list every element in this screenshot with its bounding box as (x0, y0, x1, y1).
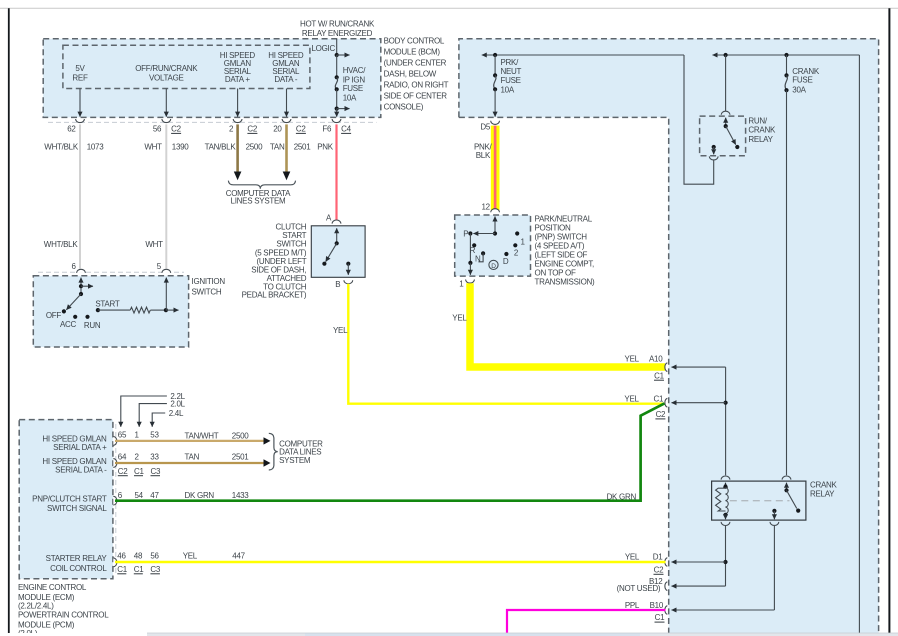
wire GMLAN- internal (286, 89, 288, 117)
svg-text:PNP/CLUTCH START: PNP/CLUTCH START (32, 494, 107, 503)
svg-text:LOGIC: LOGIC (312, 44, 336, 53)
wire clutch output down (347, 264, 349, 275)
svg-text:46: 46 (117, 552, 126, 561)
connector arc A10 (665, 363, 667, 372)
svg-text:DATA -: DATA - (274, 75, 298, 84)
svg-text:POSITION: POSITION (535, 223, 571, 232)
node clutch common (335, 241, 339, 245)
left page border (8, 8, 10, 633)
node run/crank common (724, 124, 728, 128)
svg-text:D5: D5 (480, 122, 490, 131)
svg-text:C1: C1 (117, 565, 127, 574)
wire branch2 down arrow (336, 109, 338, 117)
wire bus1 corner down to run/crank relay (684, 55, 714, 184)
svg-text:D: D (503, 257, 509, 266)
connector arch crank relay coil top (721, 476, 730, 480)
connector arc C1 (665, 398, 667, 407)
node OFF contact (62, 309, 66, 313)
node ignition rotor dot (79, 292, 83, 296)
node 1 contact (515, 231, 519, 235)
actuator dashed line (730, 500, 790, 502)
label HVAC/ IP IGN FUSE 10A (343, 66, 367, 102)
top right fuse block dashed border (459, 39, 879, 633)
fuse PRK/NEUT 10A (493, 73, 497, 91)
connector cup pin 62 (76, 119, 85, 123)
svg-text:TAN: TAN (270, 142, 285, 151)
wire bus2 right corner down (858, 55, 860, 633)
wire run/crank relay feed (725, 55, 727, 111)
node clutch output contact (346, 262, 350, 266)
pin labels 6 54 47 (118, 491, 160, 500)
svg-text:1390: 1390 (172, 142, 190, 151)
node logic branch dot (335, 53, 339, 57)
svg-text:C2: C2 (247, 125, 257, 134)
wire PNK (335, 124, 337, 220)
label PNK/ BLK (474, 142, 493, 160)
svg-text:20: 20 (273, 125, 282, 134)
svg-text:1433: 1433 (232, 491, 250, 500)
svg-text:C3: C3 (151, 467, 161, 476)
svg-text:RADIO, ON RIGHT: RADIO, ON RIGHT (384, 80, 449, 89)
connector cup clutch B (344, 280, 353, 284)
clutch switch arm (326, 243, 337, 261)
node clutch arm end (322, 262, 326, 266)
svg-text:(UNDER CENTER: (UNDER CENTER (384, 58, 447, 67)
wire resistor to node (150, 309, 166, 311)
stub 2.4L (152, 409, 184, 427)
BCM box fill (43, 39, 381, 118)
svg-text:2501: 2501 (232, 453, 250, 462)
svg-text:PRK/: PRK/ (501, 58, 520, 67)
node coil top (723, 485, 727, 489)
label C1 under A10 (654, 371, 665, 380)
label HI SPEED GMLAN SERIAL DATA + (220, 51, 256, 84)
svg-text:VOLTAGE: VOLTAGE (149, 73, 184, 82)
svg-text:HI SPEED GMLAN: HI SPEED GMLAN (42, 457, 107, 466)
connector arc B12 (665, 582, 667, 591)
crank relay switch entry arrow (786, 483, 788, 491)
label HI SPEED GMLAN SERIAL DATA - (268, 51, 304, 84)
connector arch PNP 12 (491, 209, 500, 213)
wire P down (469, 234, 471, 263)
svg-text:(4 SPEED A/T): (4 SPEED A/T) (535, 241, 585, 250)
svg-text:2501: 2501 (294, 142, 312, 151)
crank relay box (712, 481, 806, 520)
wire A10 to crank relay (672, 367, 726, 475)
node bus2 crank fuse tap (784, 53, 788, 57)
fuse HVAC/IP IGN 10A (335, 75, 339, 91)
label 5V REF (72, 64, 88, 82)
svg-text:PNK/: PNK/ (474, 142, 493, 151)
run/crank switch arm (726, 126, 736, 145)
label CRANK FUSE 30A (792, 67, 820, 95)
svg-text:D1: D1 (653, 552, 663, 561)
wire DK GRN 1433 (115, 403, 664, 500)
label PNP/CLUTCH START SWITCH SIGNAL (32, 494, 107, 512)
wire fuse to D5 arrow (494, 89, 496, 116)
pin labels 46 48 56 (117, 552, 159, 561)
svg-text:SIDE OF CENTER: SIDE OF CENTER (384, 91, 448, 100)
run/crank relay input arrow (725, 118, 727, 126)
wire START to resistor (98, 309, 130, 311)
svg-text:65: 65 (118, 431, 127, 440)
label BODY CONTROL MODULE (BCM) (384, 36, 449, 111)
svg-text:C2: C2 (296, 125, 306, 134)
connector arc D1 (665, 558, 667, 567)
svg-text:SWITCH: SWITCH (192, 288, 222, 297)
wire ignition pin6 entry (80, 278, 82, 294)
svg-text:(2.2L/2.4L): (2.2L/2.4L) (18, 602, 54, 611)
svg-text:IP IGN: IP IGN (343, 75, 366, 84)
svg-text:CONSOLE): CONSOLE) (384, 102, 424, 111)
svg-text:SERIAL DATA -: SERIAL DATA - (55, 466, 107, 475)
svg-text:30A: 30A (792, 86, 806, 95)
svg-text:FUSE: FUSE (501, 76, 521, 85)
svg-text:SYSTEM: SYSTEM (279, 456, 311, 465)
clutch switch common arrow up (336, 228, 338, 243)
svg-text:47: 47 (150, 491, 159, 500)
wire to PRK/NEUT fuse (494, 55, 496, 75)
svg-text:C2: C2 (656, 410, 666, 419)
wire YEL thick highlighted PNP to A10 (470, 283, 665, 367)
pin labels row (67, 125, 351, 134)
wire YEL clutch B to C1 (348, 284, 664, 404)
node ACC contact (73, 315, 77, 319)
svg-text:PARK/NEUTRAL: PARK/NEUTRAL (535, 214, 593, 223)
svg-text:CRANK: CRANK (748, 126, 776, 135)
wire color labels row (44, 142, 333, 151)
wire to fuse top (336, 55, 338, 77)
pin labels C1 C1 C3 (bottom) (117, 565, 161, 574)
wire WHT/BLK 1073 (79, 124, 81, 268)
wire branch2 arrow (337, 108, 350, 110)
wire switch output to B10 (773, 526, 775, 610)
svg-text:TAN/BLK: TAN/BLK (205, 142, 237, 151)
svg-text:(LEFT SIDE OF: (LEFT SIDE OF (535, 250, 588, 259)
svg-text:YEL: YEL (625, 552, 640, 561)
label B12 (NOT USED) (617, 577, 664, 593)
ignition switch box (33, 276, 188, 347)
label TAN 2501 (185, 453, 250, 462)
bottom scrollbar bar (0, 633, 898, 636)
svg-text:NEUT: NEUT (501, 67, 522, 76)
svg-text:ENGINE CONTROL: ENGINE CONTROL (18, 583, 87, 592)
fuse CRANK 30A (784, 73, 788, 92)
label PPL B10 (625, 601, 664, 610)
wire PNP out down arrow (469, 263, 471, 275)
svg-text:WHT: WHT (144, 142, 162, 151)
label PRK/ NEUT FUSE 10A (501, 58, 522, 94)
node branch2 dot (335, 107, 339, 111)
crank relay switch arm (787, 490, 797, 508)
svg-text:C1: C1 (654, 371, 664, 380)
wire TAN 2501 (115, 459, 271, 466)
label TAN/WHT 2500 (185, 431, 250, 440)
svg-text:C2: C2 (171, 125, 181, 134)
svg-text:DASH, BELOW: DASH, BELOW (384, 69, 437, 78)
svg-text:DATA +: DATA + (225, 75, 251, 84)
wire PNK/BLK highlighted (491, 126, 500, 211)
resistor ignition (130, 307, 150, 313)
svg-text:C1: C1 (655, 613, 665, 622)
svg-text:HI SPEED GMLAN: HI SPEED GMLAN (42, 435, 107, 444)
connector cup pin 20 (282, 119, 291, 123)
svg-text:C2: C2 (118, 467, 128, 476)
node bus1 fuse tap (493, 53, 497, 57)
label STARTER RELAY COIL CONTROL (46, 554, 108, 573)
svg-text:10A: 10A (501, 85, 515, 94)
label OFF/RUN/CRANK VOLTAGE (135, 64, 198, 82)
svg-text:CRANK: CRANK (810, 481, 838, 490)
svg-text:D: D (491, 263, 496, 270)
svg-text:2500: 2500 (232, 431, 250, 440)
svg-text:33: 33 (150, 453, 159, 462)
label CLUTCH START SWITCH block (242, 223, 307, 300)
svg-text:(PNP) SWITCH: (PNP) SWITCH (535, 232, 588, 241)
brace computer data lines (ECM) (269, 433, 278, 470)
wire node arrow right (166, 309, 179, 311)
label IGNITION SWITCH (192, 277, 226, 297)
wire ignition pin5 entry (165, 278, 167, 311)
svg-text:2.0L: 2.0L (170, 400, 185, 409)
svg-text:OFF/RUN/CRANK: OFF/RUN/CRANK (135, 64, 198, 73)
svg-text:A10: A10 (649, 354, 663, 363)
svg-text:C1: C1 (654, 394, 664, 403)
wire 5V REF internal (79, 89, 81, 117)
label HI SPEED GMLAN SERIAL DATA - (ECM) (42, 457, 107, 475)
underlines C1 C1 C3 (117, 573, 160, 575)
resistor crank relay (716, 488, 726, 511)
svg-text:48: 48 (134, 552, 143, 561)
svg-text:PNK: PNK (317, 142, 334, 151)
wire PNP pin12 entry (494, 217, 496, 234)
ECM/PCM box (19, 420, 113, 579)
node D1 junction (723, 560, 727, 564)
stub 2.0L (139, 400, 185, 427)
svg-text:IGNITION: IGNITION (192, 277, 226, 286)
svg-text:B10: B10 (650, 601, 664, 610)
node RUN contact (85, 315, 89, 319)
svg-text:C3: C3 (150, 565, 160, 574)
wire run/crank output down (713, 147, 715, 154)
node 2 contact (513, 243, 517, 247)
svg-text:HVAC/: HVAC/ (343, 66, 367, 75)
connector cup pin 56 (162, 119, 171, 123)
wire GMLAN+ internal (237, 89, 239, 117)
svg-text:SWITCH SIGNAL: SWITCH SIGNAL (47, 504, 107, 513)
svg-text:LINES SYSTEM: LINES SYSTEM (231, 197, 286, 206)
svg-text:C4: C4 (341, 125, 351, 134)
svg-text:RUN: RUN (84, 321, 101, 330)
wire YEL 447 (115, 561, 666, 563)
wire PNP to P arrow (473, 233, 495, 235)
svg-text:OFF: OFF (46, 311, 62, 320)
node D contact (504, 252, 508, 256)
BCM inner box (63, 45, 310, 88)
svg-text:B: B (335, 280, 340, 289)
brace computer data lines (228, 181, 295, 189)
wire TAN/BLK 2500 (234, 124, 242, 180)
pin labels C2 C1 C3 (118, 467, 161, 476)
wire fuse to branch2 (336, 89, 338, 108)
svg-text:TAN/WHT: TAN/WHT (185, 431, 219, 440)
label COMPUTER DATA LINES SYSTEM (ECM) (279, 440, 323, 466)
wire D1 arrow (672, 561, 726, 563)
svg-text:WHT/BLK: WHT/BLK (44, 142, 79, 151)
svg-text:12: 12 (481, 203, 490, 212)
svg-text:447: 447 (232, 552, 245, 561)
label YEL C1 (624, 394, 664, 403)
svg-text:56: 56 (153, 125, 162, 134)
svg-text:COIL CONTROL: COIL CONTROL (50, 564, 107, 573)
svg-text:MODULE (BCM): MODULE (BCM) (384, 47, 441, 56)
top right fuse block region fill (459, 39, 879, 633)
label CRANK RELAY (810, 481, 838, 499)
label C1 under B10 (655, 613, 666, 622)
connector cup D5 (491, 121, 500, 125)
top hairline (0, 7, 898, 9)
clutch start switch box (311, 226, 365, 277)
wire B10 arrow (672, 609, 775, 611)
svg-text:C1: C1 (134, 467, 144, 476)
svg-text:MODULE (ECM): MODULE (ECM) (18, 593, 75, 602)
connector arch run/crank relay top (721, 111, 730, 115)
wire PPL B10 (507, 610, 666, 633)
svg-text:DK GRN: DK GRN (607, 492, 637, 501)
node PNP out (468, 261, 472, 265)
node ignition pin5 junction (164, 308, 168, 312)
wire coil bottom arrow (725, 515, 727, 519)
label C2 under D1 (654, 565, 665, 574)
N contact elbow (478, 253, 483, 261)
node R contact (472, 243, 476, 247)
connector cup run/crank bottom (709, 156, 718, 160)
label COMPUTER DATA LINES SYSTEM (top) (226, 189, 291, 206)
svg-text:P: P (463, 230, 468, 239)
ignition rotor arm to OFF (66, 294, 81, 310)
svg-text:REF: REF (72, 73, 88, 82)
label HOT W/ RUN/CRANK RELAY ENERGIZED (300, 20, 375, 39)
svg-text:PEDAL BRACKET): PEDAL BRACKET) (242, 291, 307, 300)
svg-text:F6: F6 (322, 125, 332, 134)
connector arch pin 5 (162, 269, 171, 273)
wire coil bottom to D1 and B12 (725, 526, 727, 586)
connector arch pin 6 (77, 269, 86, 273)
wire bus1 arrow left (482, 54, 684, 56)
right page border (888, 8, 890, 633)
svg-text:YEL: YEL (333, 326, 348, 335)
svg-text:RELAY ENERGIZED: RELAY ENERGIZED (302, 29, 373, 38)
node P contact (468, 231, 472, 235)
label YEL 447 (183, 552, 246, 561)
connector cup PNP 1 (466, 280, 475, 284)
svg-text:STARTER RELAY: STARTER RELAY (46, 554, 108, 563)
label ENGINE CONTROL MODULE block (18, 583, 109, 636)
svg-text:53: 53 (150, 431, 159, 440)
svg-text:PPL: PPL (625, 601, 640, 610)
wire C1 arrow (672, 402, 726, 404)
node ignition branch dot (79, 284, 83, 288)
wire crank fuse down to relay (786, 90, 788, 475)
svg-text:ENGINE COMPT,: ENGINE COMPT, (535, 259, 595, 268)
node PNP center (493, 231, 497, 235)
svg-text:62: 62 (67, 125, 76, 134)
connector arc B10 (665, 606, 667, 615)
pin labels 65 1 53 (118, 431, 160, 440)
svg-text:10A: 10A (343, 93, 357, 102)
svg-text:1073: 1073 (87, 142, 105, 151)
label YEL A10 (625, 354, 664, 363)
wire switch output down (773, 511, 775, 519)
node switch top (784, 488, 788, 492)
svg-text:BODY CONTROL: BODY CONTROL (384, 36, 445, 45)
connector cup pin 2 (233, 119, 242, 123)
node switch arm end (796, 509, 800, 513)
svg-text:RELAY: RELAY (810, 490, 835, 499)
wire WHT 1390 (165, 124, 167, 268)
svg-text:POWERTRAIN CONTROL: POWERTRAIN CONTROL (18, 611, 109, 620)
wire crank fuse feed (786, 55, 788, 75)
run/crank relay box (700, 116, 746, 156)
svg-text:YEL: YEL (625, 354, 640, 363)
svg-text:RELAY: RELAY (748, 135, 773, 144)
connector arch clutch A (332, 220, 341, 224)
label PARK/NEUTRAL POSITION (PNP) SWITCH block (535, 214, 596, 286)
ECM connector face dashed (115, 424, 117, 575)
svg-text:WHT/BLK: WHT/BLK (44, 240, 79, 249)
svg-text:DK GRN: DK GRN (185, 491, 215, 500)
svg-text:2500: 2500 (246, 142, 264, 151)
svg-text:64: 64 (118, 453, 127, 462)
node START contact (96, 308, 100, 312)
connector cup pin F6 (332, 119, 341, 123)
svg-text:START: START (95, 300, 119, 309)
wire B12 arrow (672, 585, 726, 587)
svg-text:FUSE: FUSE (792, 76, 812, 85)
svg-text:5V: 5V (75, 64, 85, 73)
PNP switch box (455, 215, 531, 276)
node A10/C1 junction (724, 401, 728, 405)
svg-text:CRANK: CRANK (792, 67, 820, 76)
connector arc ECM pin 46 (113, 558, 117, 567)
label DK GRN 1433 (185, 491, 250, 500)
connector cup crank relay switch bottom (770, 522, 779, 526)
label HI SPEED GMLAN SERIAL DATA + (ECM) (42, 435, 107, 453)
svg-text:TRANSMISSION): TRANSMISSION) (535, 277, 596, 286)
svg-text:SERIAL DATA +: SERIAL DATA + (53, 443, 107, 452)
svg-text:YEL: YEL (183, 552, 198, 561)
svg-text:56: 56 (150, 552, 159, 561)
BCM connector face dashed line (48, 121, 377, 123)
node switch output (772, 509, 776, 513)
node run/crank arm end (735, 145, 739, 149)
pin label underlines (171, 132, 351, 134)
connector arch crank relay switch top (782, 476, 791, 480)
wire TAN/WHT 2500 (115, 437, 271, 444)
wire ignition branch arrow (81, 285, 93, 287)
coil crank relay (726, 488, 729, 514)
wire TAN 2501 (283, 124, 291, 180)
label RUN/ CRANK RELAY (748, 117, 776, 144)
wire bus2 arrow left (713, 54, 860, 56)
svg-text:TAN: TAN (185, 453, 200, 462)
svg-text:YEL: YEL (452, 314, 467, 323)
svg-text:ON TOP OF: ON TOP OF (535, 268, 576, 277)
crank relay coil entry arrow (725, 483, 727, 487)
svg-text:FUSE: FUSE (343, 84, 363, 93)
label C2 under C1 (655, 410, 666, 419)
ignition connector face dashed (38, 271, 184, 273)
